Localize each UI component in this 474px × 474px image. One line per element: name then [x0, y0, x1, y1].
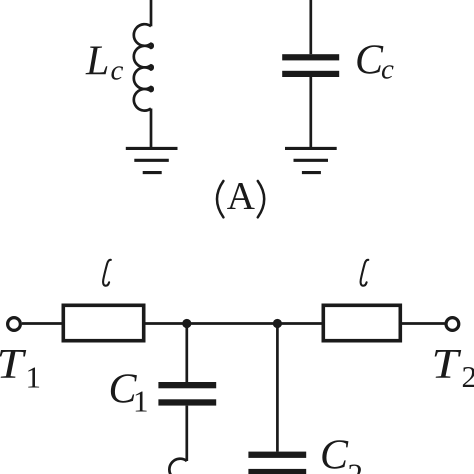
ground (right)	[285, 148, 337, 172]
label T1	[0, 341, 41, 395]
svg-text:c: c	[111, 54, 124, 86]
svg-text:A: A	[227, 174, 255, 217]
node 2 junction dot	[273, 319, 282, 328]
svg-text:T: T	[0, 341, 26, 387]
terminal T1	[8, 318, 21, 331]
wire capacitor to ground	[309, 77, 312, 148]
wire node 2 to C2	[276, 324, 279, 452]
label (A)	[217, 174, 264, 217]
wire node 1 to C1	[185, 324, 188, 383]
transmission line section l (left)	[63, 305, 143, 340]
inductor Lc	[134, 24, 153, 110]
inductor below C1 (cut off at bottom edge)	[169, 459, 186, 474]
wire from top edge to inductor Lc	[150, 0, 153, 26]
svg-text:1: 1	[26, 360, 42, 395]
wire from top edge to capacitor Cc	[309, 0, 312, 54]
wire line section to T2	[402, 322, 445, 325]
ground (left)	[126, 148, 178, 172]
label T2	[432, 341, 474, 394]
svg-text:C: C	[320, 433, 349, 474]
label Lc	[85, 39, 124, 87]
wire T1 to line section l	[22, 322, 62, 325]
capacitor Cc	[282, 54, 339, 77]
terminal T2	[446, 318, 459, 331]
svg-text:C: C	[355, 38, 384, 84]
label Cc	[355, 38, 394, 86]
wire line section to node 1 and node 2	[146, 322, 322, 325]
label l (right)	[361, 260, 369, 286]
label l (left)	[103, 260, 111, 286]
wire C1 down	[185, 406, 188, 461]
svg-text:c: c	[381, 53, 394, 85]
capacitor C1	[158, 382, 216, 406]
capacitor C2 (cut off at bottom edge)	[248, 452, 306, 474]
svg-text:2: 2	[462, 359, 474, 394]
transmission line section l (right)	[323, 305, 400, 340]
label C2	[320, 433, 363, 474]
wire inductor to ground	[150, 109, 153, 149]
node 1 junction dot	[182, 319, 191, 328]
svg-text:1: 1	[133, 383, 149, 418]
svg-text:2: 2	[348, 457, 364, 474]
svg-text:L: L	[85, 39, 109, 85]
label C1	[109, 366, 149, 418]
svg-text:T: T	[432, 341, 462, 387]
